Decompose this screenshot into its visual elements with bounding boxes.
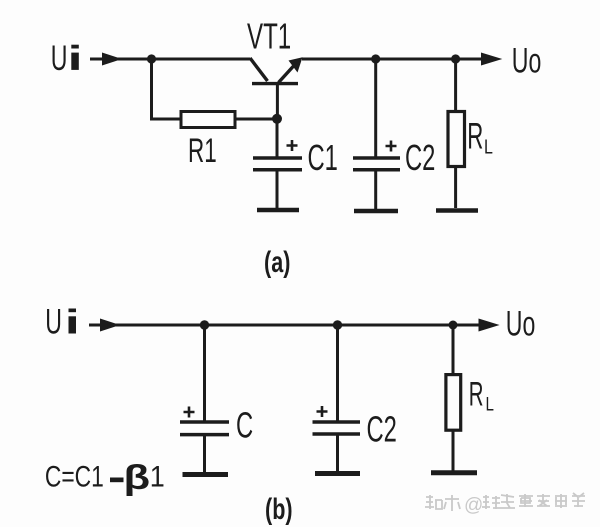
wire down to C2 (a): [374, 59, 377, 157]
wire input to transistor collector (a): [113, 58, 250, 61]
ground RL (b): [431, 470, 477, 475]
label equation C=C1-B1: [45, 459, 165, 496]
label Ui (input b): [45, 303, 76, 342]
wire emitter to output (a): [302, 58, 482, 61]
node C2 junction (b): [333, 320, 342, 329]
ground C2 (b): [315, 471, 360, 476]
wire RL to ground (a): [454, 167, 457, 209]
resistor R1: [181, 112, 235, 128]
svg-text:(b): (b): [265, 491, 293, 525]
node C junction (b): [200, 320, 209, 329]
svg-text:Uo: Uo: [506, 305, 536, 344]
svg-text:R1: R1: [188, 132, 217, 170]
wire C2 to ground (a): [374, 170, 377, 209]
transistor VT1: [250, 57, 303, 119]
ground C2 (a): [354, 209, 398, 214]
svg-text:β: β: [124, 459, 151, 496]
output arrow (a): [481, 53, 502, 66]
node base junction (a): [272, 114, 282, 124]
svg-text:@: @: [464, 495, 483, 516]
capacitor C2 (a): [353, 141, 400, 170]
svg-text:L: L: [486, 393, 494, 415]
svg-text:VT1: VT1: [247, 17, 291, 57]
output arrow (b): [479, 319, 500, 332]
capacitor C2 (b): [313, 406, 361, 434]
svg-text:1: 1: [150, 460, 165, 494]
svg-text:C2: C2: [405, 138, 435, 178]
ground RL (a): [436, 208, 478, 213]
wire C2 to ground (b): [336, 434, 339, 471]
node RL junction (a): [451, 54, 460, 63]
wire junction down to R1 (a): [152, 57, 182, 119]
label RL (a): [467, 116, 493, 158]
label Ui (input a): [51, 39, 79, 78]
wire down to C (b): [203, 325, 206, 421]
capacitor C (b): [180, 407, 229, 435]
svg-text:Uo: Uo: [512, 42, 542, 81]
main wire (b): [110, 324, 479, 327]
resistor RL (b): [446, 375, 461, 431]
resistor RL (a): [448, 112, 465, 167]
watermark zhihu: [425, 493, 585, 516]
svg-text:R: R: [467, 116, 483, 157]
ground C (b): [183, 472, 229, 477]
wire C1 to ground: [276, 170, 279, 208]
capacitor C1: [253, 140, 302, 170]
wire down to RL (a): [454, 59, 457, 112]
svg-text:(a): (a): [264, 244, 290, 278]
svg-text:C=C1: C=C1: [45, 459, 104, 493]
node RL junction (b): [449, 321, 458, 330]
wire down to C2 (b): [336, 325, 339, 421]
svg-text:C: C: [236, 406, 253, 446]
input arrow (b): [89, 319, 120, 332]
svg-text:U: U: [51, 39, 68, 78]
wire R1 to base node: [235, 118, 277, 121]
wire C to ground (b): [203, 435, 206, 472]
node C2 junction (a): [371, 54, 380, 63]
svg-text:C2: C2: [367, 409, 397, 449]
wire RL to ground (b): [452, 430, 455, 471]
label RL (b): [469, 375, 494, 415]
ground C1: [257, 208, 299, 213]
node input junction (a): [147, 54, 156, 63]
svg-text:L: L: [484, 136, 493, 158]
svg-text:U: U: [45, 303, 62, 342]
svg-text:R: R: [469, 375, 484, 413]
wire base node down to C1: [276, 119, 279, 157]
wire down to RL (b): [452, 325, 455, 375]
svg-text:C1: C1: [308, 138, 338, 178]
input arrow (a): [90, 53, 122, 66]
